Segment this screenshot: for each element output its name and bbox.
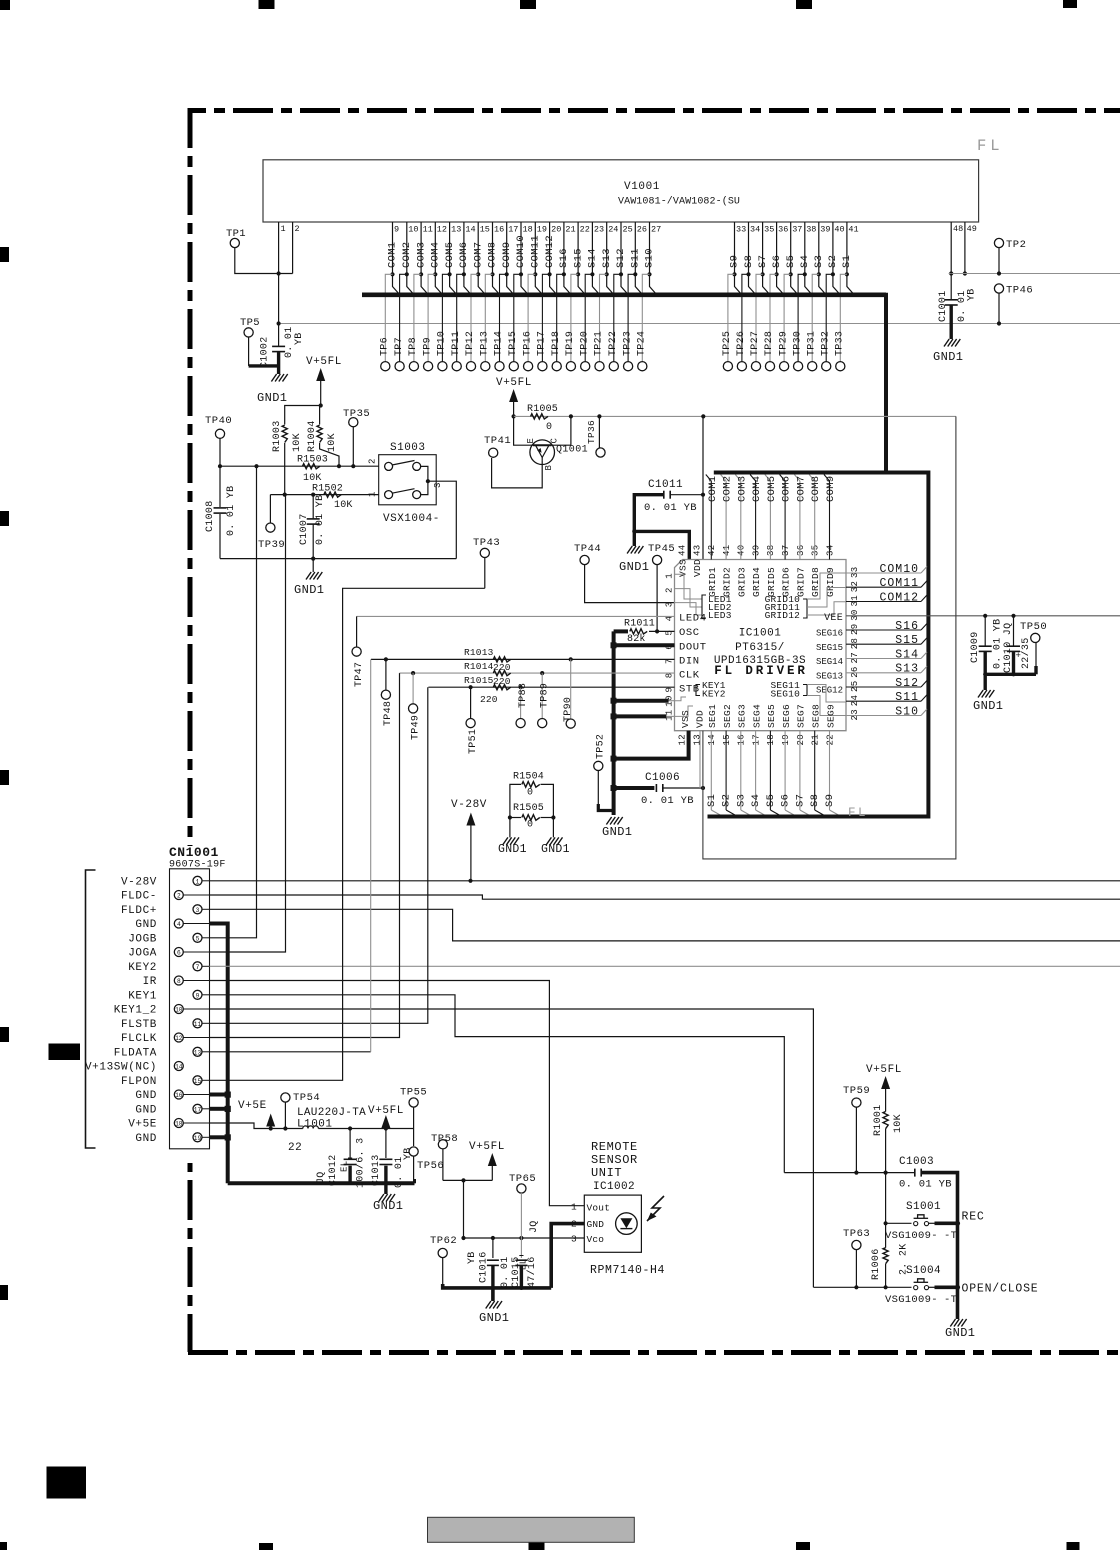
- page border dashed bottom: [188, 1350, 1120, 1355]
- registration mark top-left: [0, 0, 10, 10]
- wire KEY1 row to C1003: [784, 1171, 915, 1175]
- svg-text:GND1: GND1: [373, 1199, 403, 1213]
- svg-text:C1016: C1016: [479, 1251, 490, 1283]
- svg-text:10K: 10K: [893, 1114, 904, 1133]
- registration mark bottom 4: [796, 1542, 810, 1550]
- svg-text:VSS: VSS: [680, 710, 691, 728]
- resistor R1015: [464, 675, 511, 705]
- svg-text:9: 9: [394, 225, 399, 235]
- svg-text:R1014: R1014: [464, 661, 494, 672]
- svg-text:3: 3: [571, 1234, 577, 1245]
- svg-text:JQ: JQ: [529, 1220, 540, 1233]
- svg-text:COM11: COM11: [530, 235, 542, 268]
- wire GND pin17 thick: [210, 1107, 226, 1111]
- wire R1003 bottom: [284, 443, 286, 495]
- svg-text:GND: GND: [135, 1104, 157, 1116]
- IC1001 pin label VEE: [824, 613, 843, 624]
- svg-text:12: 12: [678, 734, 688, 745]
- wire TP1 to pins 1-2: [235, 248, 293, 276]
- test point TP50: [1020, 621, 1047, 674]
- svg-text:FLPON: FLPON: [121, 1076, 157, 1088]
- test point TP59: [843, 1085, 870, 1173]
- capacitor C1002: [260, 324, 306, 369]
- svg-text:29: 29: [850, 624, 860, 635]
- IC1001 label UPD16315GB-3S: [714, 655, 806, 667]
- svg-text:14: 14: [175, 1064, 183, 1071]
- display column wires COM1-S10 with test points TP6-TP24: [380, 222, 662, 371]
- connector CN1001 body: [170, 869, 210, 1149]
- svg-text:COM2: COM2: [722, 476, 734, 502]
- wire C1007 below: [311, 524, 315, 561]
- svg-text:14: 14: [707, 734, 717, 745]
- svg-text:36: 36: [778, 225, 788, 235]
- svg-text:YB: YB: [294, 332, 305, 345]
- switch S1003 box: [379, 442, 440, 525]
- IC1001 internal KEY bracket: [675, 680, 726, 716]
- display V1001 label: [624, 181, 660, 193]
- svg-text:C1002: C1002: [260, 336, 271, 368]
- capacitor C1015 electrolytic: [500, 1220, 540, 1288]
- wires SEG1-SEG9 to FL tags S1-S9: [706, 731, 841, 817]
- svg-text:SEG4: SEG4: [751, 704, 762, 728]
- svg-text:COM12: COM12: [544, 235, 556, 268]
- svg-text:R1015: R1015: [464, 675, 494, 686]
- svg-text:13: 13: [692, 734, 702, 745]
- svg-text:TP46: TP46: [1006, 285, 1033, 297]
- svg-text:KEY2: KEY2: [128, 962, 157, 974]
- svg-text:TP18: TP18: [551, 331, 562, 356]
- IC1001 internal LED bracket: [675, 574, 732, 621]
- wire IR pin8: [210, 981, 585, 1206]
- wire JOGA pin6: [210, 495, 286, 952]
- svg-text:13: 13: [451, 225, 461, 235]
- resistor R1014: [464, 661, 511, 687]
- svg-text:S1: S1: [841, 255, 853, 268]
- capacitor C1011: [634, 479, 705, 531]
- resistor R1504 loop: [510, 772, 554, 818]
- capacitor C1016: [467, 1238, 499, 1288]
- svg-text:S1003: S1003: [390, 442, 426, 454]
- svg-text:COM12: COM12: [879, 591, 919, 604]
- svg-text:TP35: TP35: [343, 408, 370, 420]
- svg-text:-T: -T: [944, 1230, 957, 1242]
- svg-text:SEG2: SEG2: [722, 704, 733, 728]
- test point TP89: [538, 673, 551, 728]
- wire KEY1 pin9: [210, 995, 785, 1173]
- svg-text:TP9: TP9: [422, 337, 433, 356]
- label FL page corner: [977, 137, 1004, 155]
- svg-text:16: 16: [175, 1092, 183, 1099]
- inductor L1001: [271, 1107, 414, 1154]
- svg-text:V+5FL: V+5FL: [368, 1105, 404, 1117]
- bus drop wire thick to FL box: [884, 293, 888, 473]
- wire FLPON pin15: [210, 588, 485, 1080]
- wire C1011 ground branch: [632, 529, 689, 559]
- ground GND1 at R1505 left: [498, 818, 527, 857]
- svg-text:TP55: TP55: [400, 1087, 427, 1099]
- svg-text:2: 2: [295, 224, 300, 234]
- svg-text:44: 44: [678, 545, 688, 556]
- power V-28V arrow: [451, 799, 487, 881]
- svg-text:33: 33: [736, 225, 746, 235]
- svg-text:S1001: S1001: [906, 1201, 941, 1213]
- svg-text:10K: 10K: [327, 433, 338, 452]
- svg-text:SEG5: SEG5: [766, 704, 777, 728]
- wire TP58 V+5FL row: [443, 1178, 492, 1182]
- svg-text:COM1: COM1: [707, 476, 719, 502]
- svg-text:38: 38: [766, 545, 776, 556]
- svg-text:IC1002: IC1002: [593, 1181, 635, 1193]
- svg-text:40: 40: [834, 225, 844, 235]
- svg-text:22: 22: [580, 225, 590, 235]
- svg-text:15: 15: [722, 734, 732, 745]
- svg-text:VSX1004-: VSX1004-: [383, 513, 440, 525]
- svg-text:TP15: TP15: [508, 331, 519, 356]
- svg-text:C: C: [550, 438, 560, 444]
- test point TP62: [430, 1235, 457, 1284]
- svg-text:C1003: C1003: [899, 1156, 934, 1168]
- svg-text:10: 10: [175, 1007, 183, 1014]
- svg-text:S2: S2: [827, 255, 839, 268]
- V1001 pin 2 wire: [293, 222, 300, 274]
- svg-text:3: 3: [196, 907, 200, 914]
- svg-text:15: 15: [480, 225, 490, 235]
- wire TP44 to pin3: [585, 565, 675, 603]
- svg-text:S6: S6: [771, 255, 783, 268]
- test point TP2: [994, 238, 1026, 275]
- wire C1001 to ground: [950, 305, 953, 340]
- test point TP1: [226, 228, 246, 248]
- IC1001 bottom pin numbers and names: [678, 704, 837, 746]
- outer supply ring box: [703, 416, 956, 859]
- wire KEY1_2 pin10: [210, 1009, 814, 1287]
- svg-text:S13: S13: [601, 248, 613, 268]
- ground GND1 at bus bottom: [602, 817, 632, 839]
- wire R1502 row: [270, 493, 378, 497]
- svg-text:LAU220J-TA: LAU220J-TA: [297, 1107, 366, 1119]
- test point TP41: [484, 435, 511, 457]
- svg-text:82k: 82k: [627, 633, 646, 645]
- svg-text:COM11: COM11: [879, 577, 919, 590]
- svg-text:-T: -T: [944, 1294, 957, 1306]
- svg-text:COM3: COM3: [415, 242, 427, 268]
- ground GND1 at C1016: [479, 1288, 509, 1325]
- svg-text:TP16: TP16: [522, 331, 533, 356]
- svg-text:GRID4: GRID4: [751, 567, 762, 597]
- wire VDD pin13 bottom: [699, 731, 701, 788]
- svg-text:V+13SW(NC): V+13SW(NC): [85, 1062, 157, 1074]
- svg-text:S8: S8: [809, 794, 821, 807]
- svg-text:CN1001: CN1001: [169, 845, 219, 860]
- svg-text:R1013: R1013: [464, 647, 494, 658]
- svg-text:TP62: TP62: [430, 1235, 457, 1247]
- svg-text:COM7: COM7: [472, 242, 484, 268]
- svg-text:1: 1: [571, 1202, 577, 1213]
- svg-text:S14: S14: [587, 248, 599, 268]
- svg-text:2: 2: [368, 458, 378, 464]
- svg-text:49: 49: [967, 224, 977, 234]
- page border dashed left: [188, 108, 193, 1352]
- svg-text:1: 1: [281, 224, 286, 234]
- wire V-28V row pin1: [210, 879, 1120, 883]
- svg-text:24: 24: [850, 695, 860, 706]
- svg-text:S10: S10: [644, 248, 656, 268]
- svg-text:S16: S16: [895, 620, 919, 633]
- svg-text:SEG10: SEG10: [770, 689, 800, 700]
- FL tag rows COM10-COM12 S16-S10: [846, 563, 927, 719]
- svg-text:R1502: R1502: [312, 484, 343, 495]
- wire FLSTB pin11: [210, 687, 428, 1023]
- svg-text:TP44: TP44: [574, 543, 601, 555]
- svg-text:10K: 10K: [334, 500, 353, 511]
- test point TP54: [281, 1092, 320, 1131]
- svg-text:V-28V: V-28V: [121, 876, 157, 888]
- svg-text:7: 7: [196, 964, 200, 971]
- wire S1003 common to ground row: [428, 481, 456, 558]
- IC1001 pin label DOUT: [679, 641, 707, 653]
- svg-text:TP30: TP30: [792, 331, 803, 356]
- svg-text:22/35: 22/35: [1020, 637, 1032, 669]
- svg-text:TP19: TP19: [565, 331, 576, 356]
- svg-text:GRID2: GRID2: [722, 567, 733, 597]
- test point TP51: [466, 687, 479, 754]
- svg-text:JOGA: JOGA: [128, 948, 157, 960]
- svg-text:TP24: TP24: [637, 331, 648, 356]
- test point TP65: [509, 1173, 536, 1238]
- test point TP44: [574, 543, 601, 565]
- power V+5E arrow: [238, 1100, 275, 1131]
- svg-text:17: 17: [751, 734, 761, 745]
- svg-text:S4: S4: [799, 255, 811, 268]
- svg-text:23: 23: [594, 225, 604, 235]
- wire TP2 row gray: [949, 273, 1120, 275]
- test point TP90: [563, 659, 575, 728]
- IC1001 top pin numbers and names: [677, 545, 836, 597]
- svg-text:TP32: TP32: [821, 331, 832, 356]
- svg-text:TP21: TP21: [594, 331, 605, 356]
- wire TP45 to OSC: [655, 565, 659, 634]
- connector CN1001 pins: [85, 876, 210, 1145]
- svg-text:TP40: TP40: [205, 415, 232, 427]
- svg-text:TP2: TP2: [1006, 239, 1026, 251]
- registration mark bottom 3: [529, 1542, 545, 1550]
- svg-text:COM9: COM9: [501, 242, 513, 268]
- svg-text:S11: S11: [630, 248, 642, 268]
- test point TP40: [205, 415, 232, 468]
- svg-text:SEG14: SEG14: [816, 657, 843, 667]
- svg-text:TP31: TP31: [806, 331, 817, 356]
- svg-text:33: 33: [850, 567, 860, 578]
- ground GND1 at R1505 right: [541, 818, 570, 857]
- svg-text:V+5FL: V+5FL: [496, 377, 532, 389]
- svg-text:SEG12: SEG12: [816, 686, 843, 696]
- IC U IC1002 body: [584, 1195, 641, 1252]
- svg-text:2: 2: [177, 893, 181, 900]
- power V+5FL arrow top: [316, 368, 325, 408]
- label OPEN/CLOSE: [962, 1283, 1039, 1296]
- wire VDD feed vertical: [702, 416, 704, 559]
- svg-text:FL: FL: [848, 806, 868, 820]
- label S1001 part: [885, 1230, 957, 1242]
- svg-text:COM8: COM8: [810, 476, 822, 502]
- svg-text:SEG16: SEG16: [816, 629, 843, 639]
- svg-text:39: 39: [820, 225, 830, 235]
- svg-text:9: 9: [196, 992, 200, 999]
- svg-text:0. 01 YB: 0. 01 YB: [644, 502, 697, 514]
- svg-text:S9: S9: [729, 255, 741, 268]
- svg-text:FL DRIVER: FL DRIVER: [714, 664, 808, 678]
- V1001 pin 49 wire: [963, 222, 977, 276]
- wire R1005 row gray: [514, 414, 956, 418]
- FL box outline thick: [708, 471, 929, 817]
- svg-text:TP65: TP65: [509, 1173, 536, 1185]
- svg-text:0. 01 YB: 0. 01 YB: [641, 795, 694, 807]
- IC1001 label PT6315: [735, 642, 785, 654]
- IC1002 photodiode symbol: [616, 1213, 638, 1235]
- switch S1004: [813, 1265, 960, 1290]
- svg-text:27: 27: [850, 652, 860, 663]
- svg-text:TP41: TP41: [484, 435, 511, 447]
- power V+5FL arrow Vco: [469, 1141, 505, 1180]
- svg-text:LED4: LED4: [679, 613, 707, 625]
- svg-text:16: 16: [737, 734, 747, 745]
- registration mark left 3: [0, 770, 9, 785]
- wire ground riser to IC1002: [551, 1224, 584, 1288]
- wire FLDC- row pin2: [210, 895, 1120, 899]
- wire KEY1 pin10 thick: [612, 699, 675, 703]
- svg-text:V+5FL: V+5FL: [306, 356, 342, 368]
- svg-text:S2: S2: [721, 794, 733, 807]
- svg-text:19: 19: [781, 734, 791, 745]
- svg-text:TP90: TP90: [563, 697, 574, 722]
- svg-text:R1001: R1001: [873, 1104, 884, 1136]
- resistor R1503: [297, 455, 328, 485]
- power V+5FL label Q1001: [496, 377, 532, 389]
- capacitor C1009: [970, 616, 1004, 669]
- svg-text:4: 4: [177, 921, 181, 928]
- svg-text:S14: S14: [895, 648, 919, 661]
- label REC: [962, 1211, 985, 1224]
- svg-text:R1505: R1505: [513, 803, 544, 814]
- svg-text:TP48: TP48: [383, 701, 394, 726]
- svg-text:LED3: LED3: [708, 610, 732, 621]
- svg-text:COM5: COM5: [444, 242, 456, 268]
- svg-text:COM9: COM9: [825, 476, 837, 502]
- svg-text:COM6: COM6: [458, 242, 470, 268]
- power V+5FL label top: [306, 356, 342, 368]
- resistor R1505: [508, 803, 556, 831]
- svg-text:0: 0: [527, 788, 534, 799]
- svg-text:0: 0: [546, 422, 553, 433]
- capacitor C1010 electrolytic: [1003, 616, 1032, 673]
- svg-text:41: 41: [848, 225, 858, 235]
- registration mark left 2: [0, 511, 9, 526]
- svg-text:R1005: R1005: [527, 404, 558, 415]
- svg-text:8: 8: [177, 978, 181, 985]
- wire C1009 gnd row thick: [983, 672, 1036, 676]
- svg-text:C1012: C1012: [328, 1154, 339, 1186]
- svg-text:S4: S4: [750, 794, 762, 807]
- svg-text:IC1001: IC1001: [739, 628, 782, 640]
- svg-text:TP6: TP6: [380, 337, 391, 356]
- svg-text:TP28: TP28: [764, 331, 775, 356]
- svg-text:COM10: COM10: [515, 235, 527, 268]
- svg-text:S15: S15: [572, 248, 584, 268]
- svg-text:GND1: GND1: [498, 843, 527, 856]
- svg-text:OSC: OSC: [679, 627, 700, 639]
- svg-text:18: 18: [175, 1121, 183, 1128]
- svg-text:REC: REC: [962, 1211, 985, 1224]
- svg-text:VSG1009-: VSG1009-: [885, 1230, 938, 1242]
- svg-text:TP89: TP89: [539, 683, 550, 708]
- svg-text:TP50: TP50: [1020, 621, 1047, 633]
- wire Vco feed vertical: [463, 1180, 465, 1238]
- wire Q1001 collector: [552, 416, 571, 445]
- svg-text:TP45: TP45: [648, 543, 675, 555]
- svg-text:16: 16: [494, 225, 504, 235]
- IC1001 left pin numbers: [665, 573, 675, 721]
- svg-text:FLDC-: FLDC-: [121, 891, 157, 903]
- display V1001 box: [263, 160, 979, 222]
- svg-text:13: 13: [194, 1049, 202, 1056]
- power V+5FL arrow R1001: [866, 1064, 902, 1103]
- filament bus wire thick: [362, 292, 886, 297]
- svg-text:S12: S12: [895, 677, 919, 690]
- wire KEY2 row pin7 gray: [210, 965, 1120, 967]
- registration mark left 5: [0, 1285, 8, 1300]
- wire GND pin16 thick: [210, 1093, 226, 1097]
- wire VEE row: [846, 614, 1120, 618]
- svg-text:KEY1_2: KEY1_2: [114, 1005, 157, 1017]
- svg-text:17: 17: [194, 1106, 202, 1113]
- IC1001 label name: [739, 628, 782, 640]
- svg-text:41: 41: [722, 545, 732, 556]
- svg-text:S5: S5: [785, 255, 797, 268]
- wire LED4 row gray: [357, 615, 675, 617]
- capacitor C1001: [938, 274, 978, 323]
- svg-text:220: 220: [480, 694, 498, 705]
- svg-text:JOGB: JOGB: [128, 933, 157, 945]
- svg-text:TP51: TP51: [468, 729, 479, 754]
- wire C1010 to gnd row: [1012, 652, 1015, 674]
- wire TP5 to C1002: [249, 337, 279, 366]
- svg-text:C1001: C1001: [938, 290, 949, 322]
- svg-text:SEG15: SEG15: [816, 643, 843, 653]
- test point TP48: [381, 659, 394, 726]
- connector CN1001 title: [169, 845, 226, 871]
- svg-text:36: 36: [796, 545, 806, 556]
- capacitor C1013: [371, 1126, 414, 1188]
- registration mark top 4: [796, 0, 812, 9]
- svg-text:34: 34: [750, 225, 760, 235]
- test point TP49: [409, 673, 422, 740]
- IC1001 pin label CLK: [679, 669, 700, 681]
- svg-text:SENSOR: SENSOR: [591, 1153, 638, 1167]
- svg-text:S11: S11: [895, 691, 919, 704]
- svg-text:V+5FL: V+5FL: [866, 1064, 902, 1076]
- resistor R1013: [464, 647, 511, 673]
- svg-text:S15: S15: [895, 634, 919, 647]
- svg-text:OPEN/CLOSE: OPEN/CLOSE: [962, 1283, 1039, 1296]
- svg-text:S9: S9: [824, 794, 836, 807]
- svg-text:S13: S13: [895, 663, 919, 676]
- svg-text:VDD: VDD: [695, 710, 706, 728]
- svg-text:25: 25: [623, 225, 633, 235]
- svg-text:19: 19: [194, 1135, 202, 1142]
- svg-text:GND1: GND1: [602, 825, 632, 839]
- svg-text:GRID5: GRID5: [766, 567, 777, 597]
- svg-text:GRID12: GRID12: [765, 610, 801, 621]
